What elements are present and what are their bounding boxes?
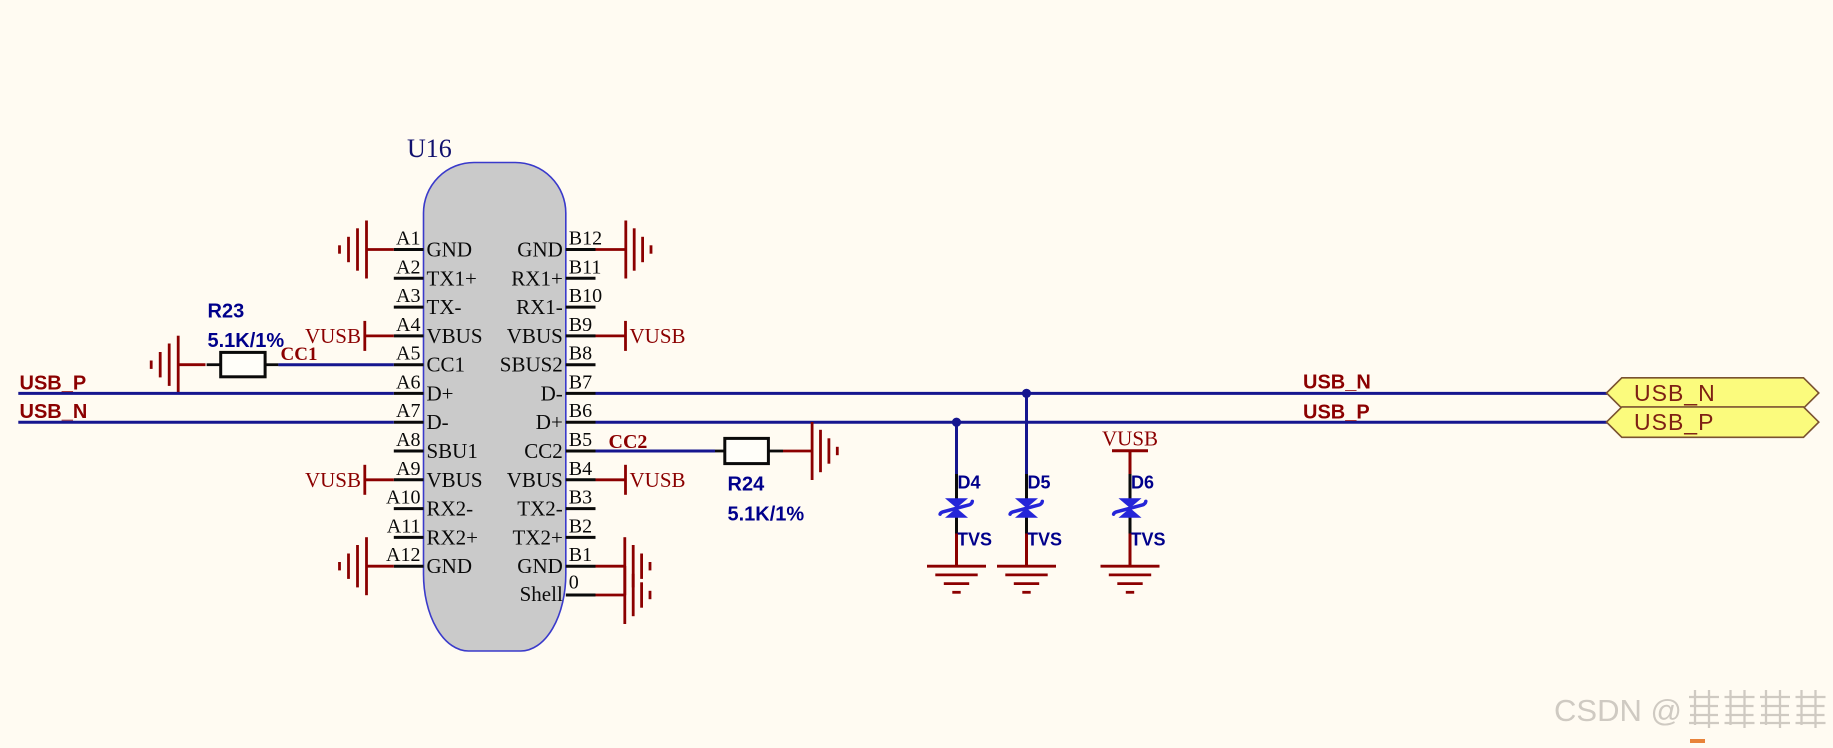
svg-text:SBUS2: SBUS2 [500,353,563,377]
svg-text:B12: B12 [569,228,602,250]
svg-text:TVS: TVS [957,529,992,549]
svg-text:D6: D6 [1131,473,1154,493]
svg-text:A3: A3 [396,285,420,307]
svg-text:D5: D5 [1028,473,1051,493]
pin B6 (D+) [536,400,596,434]
power port VUSB at D6 [1102,427,1158,475]
svg-text:TX-: TX- [427,295,462,319]
svg-text:TVS: TVS [1027,529,1062,549]
svg-text:D-: D- [541,381,563,405]
port USB_N [1607,378,1819,408]
svg-text:D+: D+ [427,381,454,405]
wire CC2 net [596,450,716,453]
wire CC1 net [278,363,393,366]
port USB_P [1607,407,1819,437]
svg-text:RX1+: RX1+ [511,266,563,290]
pin A12 (GND) [386,544,472,578]
wire D4 branch [955,422,958,475]
svg-text:USB_N: USB_N [20,401,88,423]
svg-text:B8: B8 [569,343,592,365]
pin A4 (VBUS) [394,314,483,348]
pin A8 (SBU1) [394,429,478,463]
svg-text:USB_P: USB_P [1303,401,1370,423]
pin A2 (TX1+) [394,256,477,290]
ground at pin A1 [340,221,394,279]
svg-text:RX1-: RX1- [516,295,563,319]
pin B10 (RX1-) [516,285,602,319]
svg-text:USB_P: USB_P [1634,409,1714,435]
svg-text:VBUS: VBUS [427,324,483,348]
svg-text:USB_N: USB_N [1634,380,1716,406]
ground at R23 [151,336,205,394]
svg-text:GND: GND [427,554,473,578]
svg-text:TX2+: TX2+ [512,525,562,549]
pin B12 (GND) [517,228,602,262]
svg-text:B6: B6 [569,400,592,422]
pin A1 (GND) [394,228,472,262]
svg-text:R24: R24 [728,473,766,495]
pin A11 (RX2+) [387,515,478,549]
pin A3 (TX-) [394,285,462,319]
svg-text:A2: A2 [396,256,420,278]
svg-text:CC1: CC1 [427,353,466,377]
pin B3 (TX2-) [517,487,595,521]
svg-text:VBUS: VBUS [427,468,483,492]
wire D5 branch [1025,393,1028,475]
pin B9 (VBUS) [507,314,596,348]
power port VUSB at pin A4 [305,321,394,351]
svg-text:5.1K/1%: 5.1K/1% [208,330,285,352]
ground at pin A12 [340,537,394,595]
svg-text:D-: D- [427,410,449,434]
junction on USB_N at D5 [1022,389,1031,398]
pin B1 (GND) [517,544,595,578]
pin B4 (VBUS) [507,458,596,492]
svg-text:D4: D4 [958,473,981,493]
svg-text:GND: GND [517,554,563,578]
svg-text:5.1K/1%: 5.1K/1% [728,503,805,525]
svg-text:R23: R23 [208,300,245,322]
svg-text:VUSB: VUSB [630,468,686,492]
svg-text:A6: A6 [396,371,420,393]
wire USB_P (to pin A6 D+) [18,392,394,395]
pin A9 (VBUS) [394,458,483,492]
svg-text:VUSB: VUSB [630,324,686,348]
ground under D5 [997,566,1056,592]
pin B11 (RX1+) [511,256,601,290]
ground at pin Shell [596,566,651,624]
svg-text:B9: B9 [569,314,592,336]
svg-text:B11: B11 [569,256,602,278]
svg-text:B2: B2 [569,515,592,537]
svg-text:A5: A5 [396,343,420,365]
svg-text:SBU1: SBU1 [427,439,478,463]
junction on USB_P at D4 [952,418,961,427]
svg-text:U16: U16 [407,134,452,163]
TVS diode D4 symbol [940,474,972,535]
svg-text:TX2-: TX2- [517,497,563,521]
svg-text:CC2: CC2 [524,439,563,463]
svg-text:VBUS: VBUS [507,324,563,348]
svg-text:VUSB: VUSB [305,468,361,492]
ground under D4 [927,566,986,592]
svg-text:B7: B7 [569,371,592,393]
svg-text:USB_P: USB_P [20,372,87,394]
svg-text:A11: A11 [387,515,421,537]
pin 0 (Shell) [520,572,596,607]
svg-text:GND: GND [427,238,473,262]
wire USB_N (to pin A7 D-) [18,421,394,424]
pin A5 (CC1) [394,343,465,377]
wire D5 to ground [1025,534,1028,567]
svg-text:A10: A10 [386,487,420,509]
power port VUSB at pin A9 [305,465,394,495]
svg-text:B4: B4 [569,458,592,480]
ground at pin B12 [596,221,652,279]
wire USB_P (pin B6 D+ to port) [596,421,1608,424]
svg-text:A1: A1 [396,228,420,250]
resistor R23 [207,300,285,377]
svg-text:CSDN @: CSDN @ [1554,693,1682,728]
resistor R24 [715,438,804,525]
svg-text:TVS: TVS [1131,529,1166,549]
pin B2 (TX2+) [512,515,595,549]
connector U16 body [424,163,566,652]
svg-text:B3: B3 [569,487,592,509]
pin A6 (D+) [394,371,454,405]
TVS diode D6 symbol [1114,474,1146,535]
svg-text:TX1+: TX1+ [427,266,477,290]
wire USB_N (pin B7 D- to port) [596,392,1608,395]
pin B8 (SBUS2) [500,343,596,377]
wire D4 to ground [955,534,958,567]
svg-text:B1: B1 [569,544,592,566]
power port VUSB at pin B4 [596,465,686,495]
pin B5 (CC2) [524,429,595,463]
svg-text:RX2-: RX2- [427,497,474,521]
ground at pin B1 [596,537,651,595]
svg-text:CC1: CC1 [281,344,318,365]
svg-text:A9: A9 [396,458,420,480]
svg-text:A7: A7 [396,400,420,422]
svg-text:A12: A12 [386,544,420,566]
svg-text:USB_N: USB_N [1303,372,1371,394]
svg-text:VBUS: VBUS [507,468,563,492]
svg-text:Shell: Shell [520,582,563,606]
svg-text:CC2: CC2 [609,431,648,453]
pin A7 (D-) [394,400,449,434]
svg-text:A4: A4 [396,314,420,336]
svg-text:D+: D+ [536,410,563,434]
wire D6 to ground [1129,534,1132,567]
svg-text:0: 0 [569,572,579,594]
svg-text:B5: B5 [569,429,592,451]
pin B7 (D-) [541,371,596,405]
ground under D6 [1101,566,1160,592]
svg-text:RX2+: RX2+ [427,525,479,549]
svg-text:GND: GND [517,238,563,262]
svg-text:A8: A8 [396,429,420,451]
TVS diode D5 symbol [1010,474,1042,535]
svg-text:VUSB: VUSB [1102,427,1158,451]
svg-text:B10: B10 [569,285,602,307]
ground at R24 [783,422,837,480]
power port VUSB at pin B9 [596,321,686,351]
pin A10 (RX2-) [386,487,473,521]
